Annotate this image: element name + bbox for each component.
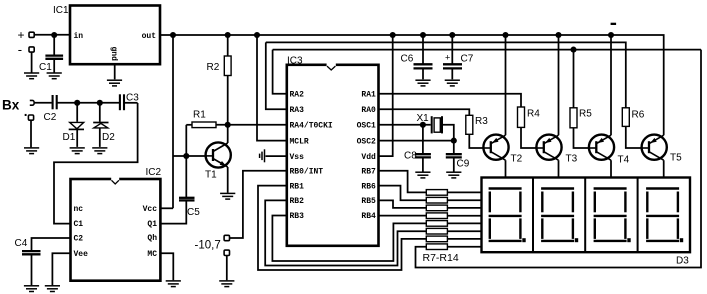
- svg-text:T2: T2: [511, 154, 523, 165]
- svg-text:D3: D3: [676, 256, 689, 267]
- svg-text:C3: C3: [126, 93, 139, 104]
- svg-text:RA0: RA0: [361, 106, 376, 115]
- svg-text:R5: R5: [579, 109, 592, 120]
- svg-text:T1: T1: [205, 170, 217, 181]
- svg-text:C5: C5: [187, 207, 200, 218]
- svg-text:Vee: Vee: [74, 250, 89, 259]
- svg-text:D2: D2: [102, 132, 115, 143]
- svg-text:C1: C1: [39, 62, 52, 73]
- svg-text:IC1: IC1: [53, 5, 69, 16]
- svg-text:X1: X1: [417, 113, 430, 124]
- svg-text:Vss: Vss: [290, 153, 305, 162]
- svg-text:C7: C7: [461, 54, 474, 65]
- svg-text:RB0/INT: RB0/INT: [290, 168, 324, 177]
- svg-text:Vdd: Vdd: [361, 153, 376, 162]
- svg-text:IC2: IC2: [146, 167, 162, 178]
- svg-text:gnd: gnd: [109, 47, 118, 62]
- svg-text:RB1: RB1: [290, 182, 305, 191]
- svg-text:C6: C6: [401, 54, 414, 65]
- svg-text:RA4/T0CKI: RA4/T0CKI: [290, 122, 333, 131]
- svg-text:C9: C9: [457, 159, 470, 170]
- svg-text:RB5: RB5: [361, 197, 376, 206]
- svg-text:T5: T5: [670, 153, 682, 164]
- svg-text:RA1: RA1: [361, 90, 376, 99]
- svg-text:+: +: [18, 28, 25, 42]
- svg-text:D1: D1: [63, 132, 76, 143]
- svg-text:T3: T3: [566, 154, 578, 165]
- svg-text:R2: R2: [207, 62, 220, 73]
- svg-text:C4: C4: [15, 238, 28, 249]
- svg-text:R4: R4: [527, 109, 540, 120]
- svg-text:C8: C8: [404, 151, 417, 162]
- svg-text:R3: R3: [475, 116, 488, 127]
- svg-text:RB6: RB6: [361, 182, 376, 191]
- svg-text:+: +: [445, 53, 450, 63]
- svg-text:C2: C2: [44, 112, 57, 123]
- svg-text:IC3: IC3: [287, 55, 303, 66]
- svg-text:Q1: Q1: [147, 220, 157, 229]
- svg-text:-: -: [18, 42, 22, 57]
- svg-text:C1: C1: [74, 220, 84, 229]
- svg-text:R7-R14: R7-R14: [423, 252, 459, 264]
- svg-text:-10,7: -10,7: [195, 240, 221, 252]
- svg-text:MC: MC: [147, 250, 157, 259]
- svg-text:RB4: RB4: [361, 212, 376, 221]
- svg-text:MCLR: MCLR: [290, 137, 309, 146]
- svg-text:nc: nc: [74, 205, 84, 214]
- svg-text:OSC2: OSC2: [357, 137, 376, 146]
- svg-text:T4: T4: [618, 155, 630, 166]
- svg-text:RB3: RB3: [290, 212, 305, 221]
- svg-text:.: .: [24, 104, 28, 119]
- svg-text:RA2: RA2: [290, 90, 305, 99]
- svg-text:out: out: [142, 32, 157, 41]
- svg-text:Vcc: Vcc: [143, 205, 158, 214]
- svg-text:R6: R6: [632, 110, 645, 121]
- svg-text:Qh: Qh: [147, 234, 157, 243]
- svg-text:RB7: RB7: [361, 168, 376, 177]
- svg-text:RB2: RB2: [290, 197, 305, 206]
- svg-text:RA3: RA3: [290, 106, 305, 115]
- svg-text:C2: C2: [74, 235, 84, 244]
- svg-text:OSC1: OSC1: [357, 122, 376, 131]
- svg-text:Bx: Bx: [2, 98, 20, 113]
- svg-text:in: in: [74, 32, 84, 41]
- svg-text:R1: R1: [193, 110, 206, 121]
